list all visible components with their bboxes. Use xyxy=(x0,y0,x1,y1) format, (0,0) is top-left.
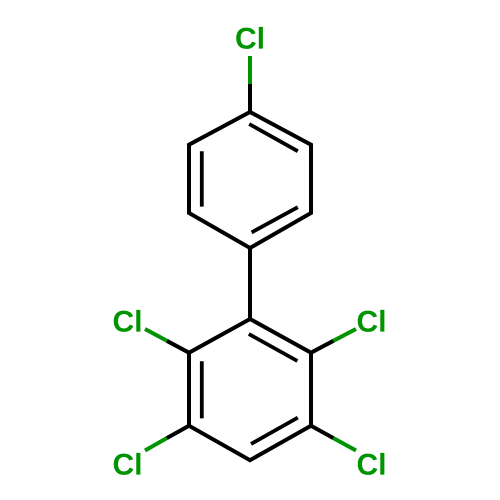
bond C3-Cl lower-left: black half xyxy=(167,426,189,438)
ring A double bond inner line (left edge) xyxy=(200,151,204,206)
bond C5-Cl lower-right: green half xyxy=(333,438,356,450)
bond C4'-Cl top: green half xyxy=(248,56,252,84)
Cl label lower-left (3-chloro) xyxy=(114,453,141,475)
bond C5-Cl lower-right: black half xyxy=(311,426,333,438)
Cl label top (4'-chloro) xyxy=(236,27,263,49)
bond C2-Cl upper-left: black half xyxy=(167,341,189,353)
biphenyl bridge bond C1-C1' xyxy=(248,248,252,319)
ring A double bond inner line (bottom-right edge) xyxy=(252,207,298,232)
bond C6-Cl upper-right: green half xyxy=(333,329,356,341)
bond C2-Cl upper-left: green half xyxy=(145,329,167,341)
benzene ring A (top ring) outline xyxy=(189,112,311,248)
bond C6-Cl upper-right: black half xyxy=(311,341,333,353)
benzene ring B (bottom ring) outline xyxy=(189,319,311,460)
ring B double bond inner line (left edge) xyxy=(200,361,204,418)
Cl label lower-right (5-chloro) xyxy=(358,453,385,475)
ring B double bond inner line (top-right edge) xyxy=(249,334,298,361)
bond C4'-Cl top: black half xyxy=(248,84,252,112)
bond C3-Cl lower-left: green half xyxy=(145,438,167,450)
ring A double bond inner line (top-right edge) xyxy=(249,124,298,151)
ring B double bond inner line (bottom-right edge) xyxy=(251,418,298,444)
Cl label upper-right (6-chloro) xyxy=(358,310,385,332)
Cl label upper-left (2-chloro) xyxy=(114,310,141,332)
